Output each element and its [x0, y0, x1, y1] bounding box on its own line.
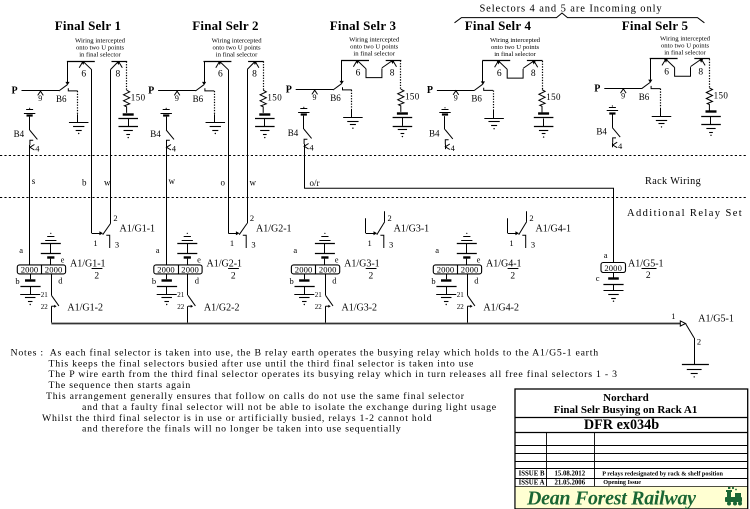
svg-text:2: 2 [697, 336, 701, 346]
svg-text:B6: B6 [639, 92, 650, 102]
svg-text:1: 1 [230, 238, 234, 248]
resistor 150 (selector 4) [539, 90, 545, 113]
issue table rows [515, 445, 748, 447]
svg-text:6: 6 [81, 70, 86, 80]
wire battery to earth (selector 1) [128, 119, 130, 127]
svg-text:A1/G1-1: A1/G1-1 [120, 224, 156, 235]
wire bank rail left (selector 3) [341, 60, 369, 62]
wire dotted to 150 ohm resistor (selector 2) [263, 61, 265, 90]
svg-text:Final Selr 3: Final Selr 3 [330, 18, 397, 33]
svg-text:B6: B6 [56, 94, 67, 104]
relay contact A1/G4-1 changeover [507, 218, 509, 233]
brace under incoming note [455, 13, 705, 23]
svg-text:8: 8 [531, 69, 536, 79]
svg-text:Rack Wiring: Rack Wiring [645, 176, 701, 187]
svg-text:22: 22 [315, 303, 323, 311]
relay contact B4 blade (selector 2) [166, 130, 174, 139]
wire P line (selector 5) [604, 88, 642, 90]
battery above coil (G2) [187, 233, 188, 234]
svg-text:onto two U points: onto two U points [213, 45, 262, 52]
contact B6 arrowhead (selector 5) [648, 80, 652, 83]
svg-text:2000: 2000 [461, 264, 479, 274]
svg-text:A1/G3-1: A1/G3-1 [394, 224, 430, 235]
battery above B4 (selector 2) [166, 108, 167, 109]
wiper contact 6 (selector 1) [79, 61, 83, 67]
svg-text:Wiring intercepted: Wiring intercepted [212, 38, 263, 45]
wire rail drop to B6 (selector 5) [650, 59, 652, 80]
rack wiring dashed separator upper [0, 155, 748, 157]
wire A1/G5-1 to earth [694, 338, 696, 365]
svg-text:1: 1 [671, 311, 675, 321]
svg-text:6: 6 [356, 69, 361, 79]
contact 9 chevron (selector 3) [312, 90, 318, 94]
wire stub to earth (selector 5) [660, 108, 662, 117]
relay contact B6 blade (selector 2) [195, 85, 203, 91]
svg-text:e: e [335, 255, 339, 265]
svg-text:This keeps the final selectors: This keeps the final selectors busied af… [49, 358, 475, 369]
ground under coil (G5) [604, 290, 624, 292]
svg-text:b: b [15, 276, 19, 286]
wire dotted B6 to earth (selector 4) [493, 91, 495, 110]
wire A1/G1-2 to busy rail [51, 306, 53, 322]
svg-text:8: 8 [252, 70, 257, 80]
svg-text:This arrangement generally ens: This arrangement generally ensures that … [46, 391, 465, 402]
battery above B4 (selector 5) [612, 105, 613, 106]
svg-text:2000: 2000 [181, 264, 199, 274]
contact 4 arrow (selector 4) [445, 144, 450, 150]
svg-text:A1/G4-1: A1/G4-1 [486, 259, 522, 270]
svg-text:150: 150 [405, 92, 420, 102]
battery above B4 (selector 3) [303, 107, 304, 108]
svg-text:e: e [61, 255, 65, 265]
contact 9 chevron (selector 4) [453, 91, 459, 95]
wire bank 6 down (selector 1) [91, 70, 93, 234]
contact A1/G1-2 tick [51, 305, 54, 307]
svg-text:b: b [152, 276, 156, 286]
contact 4 tick (selector 4) [445, 140, 448, 145]
svg-text:o: o [221, 178, 226, 188]
svg-text:A1/G3-1: A1/G3-1 [344, 259, 380, 270]
svg-text:1: 1 [368, 238, 372, 248]
svg-text:B4: B4 [14, 129, 25, 139]
wire bank rail right (selector 3) [386, 60, 402, 62]
svg-text:o/r: o/r [310, 178, 320, 188]
svg-text:w: w [169, 176, 176, 186]
svg-text:Wiring intercepted: Wiring intercepted [349, 37, 400, 44]
wire battery to earth (selector 5) [710, 117, 712, 125]
wiper contact 8 (selector 5) [701, 59, 705, 65]
wiper contact 6 (selector 2) [216, 61, 220, 67]
svg-text:9: 9 [454, 94, 458, 103]
relay contact B6 blade (selector 1) [59, 85, 67, 91]
svg-text:d: d [332, 276, 337, 286]
B6 fixed contact tick (selector 4) [484, 88, 493, 91]
wire B4 battery stem (selector 5) [612, 114, 614, 127]
ground under resistor battery (selector 4) [534, 126, 554, 128]
ground at A1/G5-1 [682, 364, 709, 366]
battery under resistor (selector 3) [397, 112, 408, 114]
wire coil b to battery (G1) [30, 274, 32, 279]
wire U-point link (selector 3) [366, 68, 382, 77]
wire bank rail right (selector 2) [248, 61, 264, 63]
svg-text:2000: 2000 [295, 264, 313, 274]
wire coil b to battery (G4) [446, 274, 448, 279]
contact 4 arrow (selector 3) [304, 144, 309, 150]
wire coil d down (G3) [325, 274, 327, 295]
resistor 150 (selector 5) [706, 88, 712, 111]
wire B4 stub (selector 4) [445, 145, 447, 150]
svg-text:2000: 2000 [21, 264, 39, 274]
ground under coil b (G3) [294, 294, 314, 296]
relay contact A1/G1-1 changeover [92, 233, 100, 235]
svg-text:e: e [197, 255, 201, 265]
svg-text:Additional Relay Set: Additional Relay Set [627, 208, 743, 219]
svg-text:Final Selr 2: Final Selr 2 [192, 18, 258, 33]
battery above coil (G3) [324, 233, 325, 234]
svg-text:Final Selr 5: Final Selr 5 [622, 18, 689, 33]
svg-text:Norchard: Norchard [603, 392, 649, 404]
ground under B6 (selector 5) [652, 116, 672, 118]
svg-text:Final Selr 1: Final Selr 1 [55, 18, 121, 33]
wire U-point link (selector 4) [507, 69, 523, 78]
battery under coil b (G1) [25, 279, 35, 281]
wire battery to earth (selector 3) [402, 118, 404, 126]
resistor 150 (selector 3) [398, 89, 404, 112]
svg-text:a: a [156, 245, 160, 255]
svg-text:Final Selr 4: Final Selr 4 [465, 18, 532, 33]
contact B6 arrowhead (selector 3) [340, 81, 344, 84]
battery above B4 (selector 4) [444, 107, 445, 108]
svg-text:2000: 2000 [319, 264, 337, 274]
contact bar 3 (A1/G1-1) [106, 235, 109, 248]
wire bank rail right (selector 4) [527, 60, 543, 62]
svg-text:B4: B4 [150, 129, 161, 139]
wire dotted to 150 ohm resistor (selector 5) [709, 59, 711, 88]
wire dotted to 150 ohm resistor (selector 4) [542, 61, 544, 90]
relay coil A1/G1 2000+2000 [17, 265, 65, 274]
wire busy run o/r to A1/G5 coil [304, 188, 613, 262]
svg-text:2: 2 [250, 213, 254, 223]
wire bank rail right (selector 1) [112, 61, 128, 63]
svg-text:A1/G1-2: A1/G1-2 [67, 303, 103, 314]
svg-text:8: 8 [116, 70, 121, 80]
contact 4 tick (selector 3) [304, 139, 307, 144]
resistor 150 (selector 2) [260, 90, 266, 113]
svg-text:4: 4 [451, 143, 456, 153]
wire coil d down (G4) [467, 274, 469, 295]
svg-text:Dean Forest Railway: Dean Forest Railway [526, 488, 696, 509]
svg-text:4: 4 [35, 143, 40, 153]
relay contact A1/G4-2 blade [467, 295, 475, 306]
logo band [516, 487, 747, 509]
wiper contact 6 (selector 4) [495, 61, 499, 67]
wire B4 battery stem (selector 3) [303, 116, 305, 129]
wiper contact 8 (selector 4) [534, 61, 538, 67]
wire bank rail left (selector 1) [67, 61, 95, 63]
wire B4 down to busy run (selector 3) [304, 144, 306, 188]
relay contact A1/G3-2 blade [326, 295, 334, 306]
wire A1/G3-2 to busy rail [325, 306, 327, 322]
battery under resistor (selector 1) [123, 113, 134, 115]
title block divider 2 [515, 432, 748, 434]
battery under coil b (G4) [441, 279, 451, 281]
B6 fixed contact tick (selector 5) [651, 86, 660, 89]
contact B6 arrowhead (selector 2) [202, 82, 206, 85]
contact bar 3 (A1/G3-1) [380, 235, 383, 248]
svg-text:22: 22 [457, 303, 465, 311]
wire P line (selector 2) [158, 90, 196, 92]
wire bank 6 down (selector 2) [228, 70, 230, 234]
B6 fixed contact tick (selector 3) [343, 87, 352, 90]
svg-text:Opening Issue: Opening Issue [603, 479, 641, 486]
wiper contact 8 (selector 1) [119, 61, 123, 67]
wire A1/G4-2 to busy rail [467, 306, 469, 322]
logo locomotive [725, 487, 742, 506]
svg-text:P relays redesignated by rack: P relays redesignated by rack & shelf po… [602, 470, 723, 477]
wire P line (selector 4) [437, 90, 475, 92]
svg-text:w: w [250, 178, 257, 188]
title block divider 1 [515, 417, 748, 419]
battery under resistor (selector 2) [259, 113, 270, 115]
contact 4 tick (selector 1) [30, 140, 33, 145]
svg-text:A1/G3-2: A1/G3-2 [342, 303, 378, 314]
svg-text:and therefore the finals will: and therefore the finals will no longer … [82, 424, 402, 435]
ground under coil b (G1) [20, 294, 40, 296]
wire coil d down (G2) [187, 274, 189, 295]
svg-text:A1/G4-2: A1/G4-2 [483, 303, 519, 314]
wire P line (selector 1) [22, 90, 60, 92]
issue table columns [546, 433, 548, 486]
svg-text:4: 4 [618, 141, 623, 151]
svg-text:B6: B6 [471, 94, 482, 104]
wire U-point link (selector 5) [675, 67, 691, 76]
svg-text:A1/G5-1: A1/G5-1 [698, 313, 734, 324]
wire bank rail left (selector 4) [482, 60, 510, 62]
wire busy rail bottom [51, 323, 680, 325]
wire to earth (G2 b) [166, 287, 168, 295]
battery under coil b (G3) [299, 279, 309, 281]
svg-text:150: 150 [546, 92, 561, 102]
relay contact B6 blade (selector 3) [333, 84, 341, 90]
ground under resistor battery (selector 5) [701, 124, 721, 126]
svg-text:Wiring intercepted: Wiring intercepted [660, 35, 711, 42]
svg-text:d: d [58, 276, 63, 286]
battery under resistor (selector 5) [706, 110, 717, 112]
relay contact B6 blade (selector 5) [642, 83, 650, 89]
svg-text:onto two U points: onto two U points [491, 44, 540, 51]
svg-text:1: 1 [509, 238, 513, 248]
relay contact B6 blade (selector 4) [474, 84, 482, 90]
svg-text:Wiring intercepted: Wiring intercepted [75, 38, 126, 45]
svg-text:in final selector: in final selector [664, 49, 706, 56]
svg-text:b: b [431, 276, 435, 286]
wire rail drop to B6 (selector 1) [67, 61, 69, 82]
svg-text:ISSUE B: ISSUE B [519, 471, 545, 478]
svg-text:2000: 2000 [437, 264, 455, 274]
contact 4 tick (selector 2) [167, 140, 170, 145]
svg-text:A1/G5-1: A1/G5-1 [628, 258, 664, 269]
wire dotted B6 to earth (selector 2) [214, 91, 216, 114]
wiper contact 6 (selector 5) [662, 59, 666, 65]
svg-text:in final selector: in final selector [494, 51, 536, 58]
svg-text:B4: B4 [288, 128, 299, 138]
ground under B6 (selector 1) [69, 122, 89, 124]
wire coil d down (G1) [51, 274, 53, 295]
svg-text:s: s [32, 176, 36, 186]
svg-text:A1/G2-2: A1/G2-2 [204, 303, 240, 314]
contact 9 chevron (selector 1) [38, 91, 44, 95]
svg-text:onto two U points: onto two U points [76, 45, 125, 52]
svg-text:2: 2 [529, 213, 533, 223]
wire dotted B6 to earth (selector 5) [660, 89, 662, 108]
svg-text:Whilst the third final selecto: Whilst the third final selector is in us… [42, 413, 432, 424]
svg-text:ISSUE A: ISSUE A [519, 479, 545, 486]
relay contact A1/G2-2 blade [188, 295, 196, 306]
resistor 150 (selector 1) [124, 90, 130, 113]
wire dotted B6 to earth (selector 3) [351, 90, 353, 109]
relay contact B4 blade (selector 5) [612, 128, 620, 137]
svg-text:2000: 2000 [157, 264, 175, 274]
wire B4 down to relay coil (selector 2) [166, 145, 168, 265]
svg-text:a: a [435, 245, 439, 255]
svg-text:21: 21 [41, 291, 49, 299]
svg-text:e: e [477, 255, 481, 265]
svg-text:a: a [293, 245, 297, 255]
wire coil c to battery (G5) [613, 273, 615, 278]
ground under resistor battery (selector 1) [119, 126, 139, 128]
wire B4 battery stem (selector 2) [166, 117, 168, 130]
svg-text:c: c [596, 273, 600, 283]
svg-text:P: P [286, 85, 292, 96]
svg-text:in final selector: in final selector [216, 52, 258, 59]
wire rail drop to B6 (selector 3) [341, 60, 343, 81]
B6 fixed contact tick (selector 1) [68, 88, 77, 91]
battery under resistor (selector 4) [538, 112, 549, 114]
wire dotted to 150 ohm resistor (selector 1) [126, 61, 128, 90]
svg-text:22: 22 [177, 303, 185, 311]
svg-text:B6: B6 [330, 93, 341, 103]
wiper contact 6 (selector 3) [353, 60, 357, 66]
svg-text:and that a faulty final select: and that a faulty final selector will no… [82, 402, 497, 413]
svg-text:a: a [604, 250, 608, 260]
svg-text:d: d [195, 276, 200, 286]
svg-text:6: 6 [497, 69, 502, 79]
ground under coil b (G2) [157, 294, 177, 296]
wire rail drop to B6 (selector 4) [482, 61, 484, 82]
svg-text:in final selector: in final selector [79, 52, 121, 59]
wire battery to earth (selector 4) [543, 119, 545, 127]
svg-text:P: P [148, 86, 154, 97]
svg-text:22: 22 [41, 303, 49, 311]
svg-text:P: P [594, 83, 600, 94]
svg-text:Selectors 4 and 5 are Incoming: Selectors 4 and 5 are Incoming only [479, 3, 662, 14]
wire bank rail right (selector 5) [694, 58, 710, 60]
ground under B6 (selector 3) [343, 117, 363, 119]
relay contact B4 blade (selector 4) [445, 130, 453, 139]
svg-text:d: d [474, 276, 479, 286]
relay contact A1/G2-1 changeover [228, 233, 236, 235]
contact 4 arrow (selector 1) [30, 145, 35, 151]
contact 4 arrow (selector 2) [167, 145, 172, 151]
svg-text:21: 21 [177, 291, 185, 299]
svg-text:Wiring intercepted: Wiring intercepted [490, 37, 541, 44]
B6 fixed contact tick (selector 2) [205, 88, 214, 91]
contact A1/G2-2 tick [188, 305, 191, 307]
battery above coil (G1) [50, 233, 51, 234]
svg-text:b: b [82, 178, 87, 188]
wire B4 down to relay coil (selector 1) [29, 145, 31, 265]
svg-text:9: 9 [175, 94, 179, 103]
wire bank 8 down (selector 2) [247, 69, 249, 223]
contact A1/G4-2 tick [467, 305, 470, 307]
wire stub to earth (selector 2) [214, 114, 216, 123]
contact 9 chevron (selector 5) [621, 89, 627, 93]
svg-text:Final Selr Busying on Rack A1: Final Selr Busying on Rack A1 [554, 404, 698, 416]
wire dotted B6 to earth (selector 1) [77, 91, 79, 114]
wiper contact 8 (selector 2) [255, 61, 259, 67]
contact bar 3 (A1/G2-1) [243, 235, 246, 248]
svg-text:The sequence then starts again: The sequence then starts again [49, 380, 192, 391]
wire to earth (G3 b) [304, 287, 306, 295]
relay coil A1/G4 2000+2000 [433, 265, 481, 274]
contact 4 tick (selector 5) [613, 138, 616, 143]
wire to earth (G4 b) [446, 287, 448, 295]
svg-text:150: 150 [131, 93, 146, 103]
svg-text:A1/G2-1: A1/G2-1 [256, 224, 292, 235]
wire stub to earth (selector 4) [493, 110, 495, 119]
contact A1/G3-2 tick [326, 305, 329, 307]
svg-text:onto two U points: onto two U points [350, 44, 399, 51]
contact 9 chevron (selector 2) [174, 91, 180, 95]
svg-text:B4: B4 [596, 127, 607, 137]
contact B6 arrowhead (selector 4) [481, 81, 485, 84]
wire bank rail left (selector 5) [650, 58, 678, 60]
contact A1/G5-1 blade [686, 324, 694, 338]
wire bank 8 down (selector 1) [110, 69, 112, 223]
relay contact A1/G1-2 blade [51, 295, 59, 306]
svg-text:onto two U points: onto two U points [661, 42, 710, 49]
wiper contact 8 (selector 3) [393, 60, 397, 66]
wire stub to earth (selector 3) [351, 109, 353, 118]
svg-text:21: 21 [457, 291, 465, 299]
svg-text:B4: B4 [429, 129, 440, 139]
ground under coil b (G4) [436, 294, 456, 296]
contact bar 3 (A1/G4-1) [522, 235, 525, 248]
svg-text:2: 2 [94, 272, 99, 282]
wire coil b to battery (G2) [166, 274, 168, 279]
svg-text:b: b [290, 276, 294, 286]
svg-text:8: 8 [698, 67, 703, 77]
wire dotted to 150 ohm resistor (selector 3) [400, 60, 402, 89]
wire B4 battery stem (selector 4) [444, 116, 446, 129]
wire coil b to battery (G3) [304, 274, 306, 279]
svg-text:3: 3 [389, 240, 393, 250]
svg-text:3: 3 [531, 240, 535, 250]
svg-text:B6: B6 [193, 94, 204, 104]
svg-text:3: 3 [115, 240, 119, 250]
svg-text:3: 3 [251, 240, 255, 250]
rack wiring dashed separator lower [0, 197, 748, 199]
svg-text:9: 9 [621, 92, 625, 101]
relay contact B4 blade (selector 1) [30, 130, 38, 139]
wire battery to earth (selector 2) [264, 119, 266, 127]
battery above coil (G4) [466, 233, 467, 234]
ground under B6 (selector 4) [484, 118, 504, 120]
contact A1/G5-1 arrow [680, 321, 685, 326]
relay contact A1/G3-1 changeover [365, 218, 367, 233]
svg-text:P: P [12, 86, 18, 97]
wire bank rail left (selector 2) [204, 61, 232, 63]
